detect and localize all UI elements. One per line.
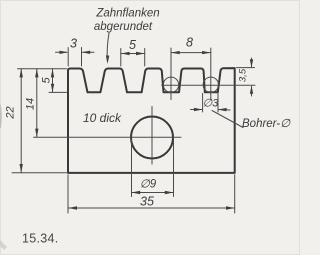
drill holes horizontal centerline (also ext for dim 3,5): [162, 84, 256, 86]
dim d9 arrows: [132, 191, 141, 194]
dim 8 arrows: [171, 51, 180, 54]
dim d3 extension lines: [202, 94, 204, 113]
dim d3 arrows: [194, 108, 203, 111]
drill hole right vertical centerline (ext for dim 8): [210, 48, 212, 100]
big hole U (circle d9): [131, 117, 173, 159]
svg-text:5: 5: [41, 76, 53, 83]
dim 22 arrows: [20, 69, 23, 78]
svg-text:22: 22: [5, 106, 17, 119]
dim d9 line: [132, 192, 174, 194]
svg-text:14: 14: [25, 98, 37, 110]
note leader arrow: [106, 55, 109, 64]
dim 14 arrows: [35, 69, 38, 78]
big hole vertical centerline: [151, 107, 153, 165]
svg-text:35: 35: [140, 195, 154, 209]
svg-text:3,5: 3,5: [238, 68, 249, 82]
dim 3,5 top extension line: [237, 67, 255, 69]
dim d3 line tails: [191, 109, 203, 111]
dim 8 line: [171, 52, 211, 54]
part outline (toothed block): [68, 68, 235, 173]
dim 5 left line: [52, 69, 54, 93]
dim 5 top arrows: [121, 52, 130, 55]
dim 5 top extension lines: [120, 49, 122, 67]
svg-text:abgerundet: abgerundet: [94, 21, 153, 33]
dim 3 extension lines: [67, 48, 69, 67]
scan smudge bottom left: [0, 240, 7, 250]
big hole horizontal centerline + extension for dim 14: [34, 136, 182, 138]
svg-text:∅9: ∅9: [140, 179, 157, 191]
dim 3,5 arrows: [250, 59, 253, 67]
left bottom extension line: [12, 172, 67, 174]
left root extension line: [49, 91, 67, 93]
svg-text:Zahnflanken: Zahnflanken: [95, 8, 159, 20]
svg-text:5: 5: [129, 38, 136, 52]
dim 35 extension lines: [67, 175, 69, 213]
dim 3,5 line tails: [251, 58, 253, 67]
dim 14 line: [36, 69, 38, 138]
svg-text:10 dick: 10 dick: [83, 111, 122, 125]
left top extension line: [18, 68, 67, 70]
svg-text:8: 8: [186, 36, 193, 50]
dim 35 arrows: [68, 206, 77, 209]
scan smudge left edge: [0, 103, 2, 128]
dim d9 extension lines: [131, 139, 133, 197]
svg-text:∅3: ∅3: [203, 98, 220, 110]
dim d3 leader to Bohrer label: [212, 111, 243, 128]
svg-text:Bohrer-∅: Bohrer-∅: [242, 118, 291, 130]
dim 3 line tails: [56, 51, 68, 53]
dim 35 line: [68, 207, 234, 209]
dim 5 left arrows: [51, 69, 54, 78]
svg-text:3: 3: [70, 37, 77, 51]
drill hole left (d3): [163, 77, 178, 92]
note leader line: [107, 33, 109, 61]
svg-text:15.34.: 15.34.: [22, 232, 59, 246]
dim 3 arrows: [60, 51, 69, 54]
drill hole right (d3): [203, 77, 218, 92]
dim 22 line: [20, 69, 22, 173]
drill hole left vertical centerline (ext for dim 8): [170, 48, 172, 100]
dim 5 top line: [121, 53, 145, 55]
